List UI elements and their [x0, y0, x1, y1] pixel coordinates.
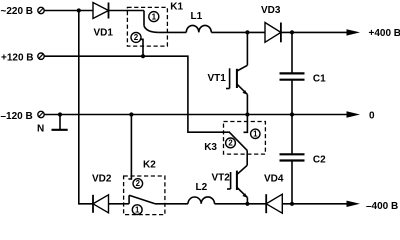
- wire VD4 to -400 output: [282, 203, 348, 205]
- svg-text:K3: K3: [204, 142, 217, 153]
- svg-text:L2: L2: [196, 182, 208, 193]
- node VT2 emitter: [245, 202, 249, 206]
- node C1/C2 on 0 rail: [290, 112, 294, 116]
- diode VD4: [266, 194, 282, 213]
- node N junction: [58, 112, 62, 116]
- capacitor C1: [280, 32, 305, 114]
- wire K2 exit to L2: [155, 203, 188, 205]
- wire K1 exit to L1: [159, 31, 187, 33]
- wire VD3 to +400 output: [281, 31, 348, 33]
- svg-text:VD3: VD3: [261, 5, 281, 16]
- K2 blade: [129, 195, 155, 204]
- K1 contact 2: [131, 32, 141, 42]
- svg-text:0: 0: [369, 110, 375, 121]
- svg-text:VD2: VD2: [92, 174, 112, 185]
- node C2 bottom: [290, 202, 294, 206]
- svg-text:+400 В: +400 В: [369, 28, 400, 39]
- svg-text:2: 2: [228, 139, 233, 148]
- node K2 branch on 0 rail: [129, 112, 133, 116]
- diode VD2: [93, 195, 109, 213]
- wire down to VD2: [79, 11, 93, 204]
- svg-text:–400 В: –400 В: [366, 201, 398, 212]
- svg-text:C1: C1: [313, 74, 326, 85]
- K3 blade: [229, 132, 248, 151]
- node VT1 collector: [245, 30, 249, 34]
- inductor L1: [186, 25, 211, 32]
- svg-text:2: 2: [136, 179, 141, 188]
- svg-text:–120 В: –120 В: [1, 111, 33, 122]
- transistor VT2 (IGBT): [227, 150, 247, 203]
- K2 contact 1: [132, 205, 142, 215]
- ground N symbol: [52, 115, 68, 130]
- K2 contact 2: [133, 179, 143, 189]
- relay contact K3 box: [224, 122, 266, 155]
- wire VD2 to K2: [109, 203, 130, 205]
- svg-text:VD4: VD4: [264, 174, 284, 185]
- svg-text:+120 В: +120 В: [1, 53, 34, 64]
- relay contact K1 box: [127, 7, 167, 46]
- K3 contact 1 stub: [244, 115, 248, 133]
- K1 contact 1: [149, 12, 159, 22]
- K1 blade: [144, 26, 159, 33]
- svg-text:VT2: VT2: [212, 173, 231, 184]
- svg-text:K1: K1: [170, 2, 183, 13]
- wire L1 to VD3: [211, 31, 265, 33]
- terminal ~220 В: [38, 7, 44, 13]
- svg-text:1: 1: [135, 205, 140, 214]
- wire 0 rail to K2 contact 2: [128, 115, 131, 180]
- wire L2 to VT2 emitter node: [215, 203, 267, 205]
- transistor VT1 (IGBT): [226, 32, 247, 114]
- wire +120 rail: [44, 56, 228, 132]
- svg-text:VT1: VT1: [208, 73, 227, 84]
- svg-text:2: 2: [134, 33, 139, 42]
- svg-text:1: 1: [152, 12, 157, 21]
- node K1/+120 junction: [141, 54, 145, 58]
- terminal -120 В: [38, 111, 44, 117]
- svg-text:K2: K2: [143, 159, 156, 170]
- wire VD1 to K1: [109, 10, 145, 12]
- inductor L2: [188, 197, 215, 204]
- node VT1 emitter / K3 on 0 rail: [245, 112, 249, 116]
- K1 lower contact stub to +120 rail: [140, 39, 143, 56]
- node junction ~220/VD2 branch: [77, 8, 81, 12]
- node C1 top: [290, 30, 294, 34]
- K3 contact 1: [251, 129, 260, 138]
- svg-text:1: 1: [253, 130, 258, 139]
- svg-text:VD1: VD1: [94, 28, 114, 39]
- wire ~220 rail: [44, 10, 93, 12]
- K3 contact 2: [226, 138, 236, 148]
- diode VD3: [265, 23, 281, 43]
- svg-text:N: N: [37, 124, 44, 135]
- terminal +120 В: [38, 53, 44, 59]
- arrow 0 output: [347, 111, 361, 117]
- diode VD1: [93, 3, 109, 19]
- arrow -400: [347, 201, 361, 207]
- svg-text:C2: C2: [313, 155, 326, 166]
- capacitor C2: [280, 115, 305, 204]
- K1 common stub: [143, 11, 145, 26]
- wire 0 rail: [44, 114, 348, 116]
- K2 common stub: [128, 195, 130, 204]
- svg-text:~220 В: ~220 В: [1, 6, 34, 17]
- arrow +400: [347, 29, 361, 35]
- relay contact K2 box: [124, 176, 165, 215]
- svg-text:L1: L1: [191, 11, 203, 22]
